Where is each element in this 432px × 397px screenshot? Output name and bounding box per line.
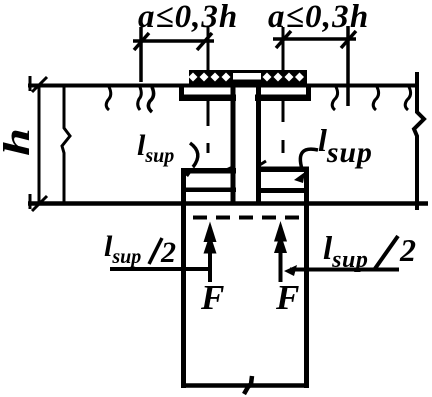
leader line l_sup/2 left <box>110 267 210 271</box>
leader arrow l_sup/2 right <box>284 265 297 276</box>
beam left flange <box>179 87 236 101</box>
column left edge <box>181 168 186 388</box>
slab break squiggle 1 <box>106 87 111 110</box>
column bottom line with break <box>181 383 309 388</box>
leader arrow l_sup right <box>294 172 305 183</box>
slab top line <box>28 84 419 88</box>
beam right flange <box>255 87 311 101</box>
svg-text:F: F <box>200 278 224 317</box>
slab break line left <box>62 86 70 202</box>
bearing pad right <box>256 167 309 194</box>
slab bottom line left end tick <box>29 194 32 209</box>
slab break squiggle 4 <box>332 87 337 110</box>
centerline right bearing <box>282 27 285 153</box>
dashed line (slab soffit inside column) <box>193 216 301 220</box>
force arrow F left <box>204 222 217 283</box>
leader line l_sup/2 right <box>290 268 399 272</box>
slab bottom line <box>28 201 428 206</box>
bearing pad left <box>181 168 236 192</box>
dimension line a right <box>273 26 356 106</box>
tick at left pad top right <box>224 166 235 171</box>
bottom break mark <box>244 376 252 394</box>
svg-text:2: 2 <box>160 236 176 269</box>
slab break squiggle 3 <box>148 87 153 112</box>
svg-text:F: F <box>275 278 299 317</box>
dimension line a left <box>133 27 214 82</box>
centerline left bearing <box>207 27 210 153</box>
slab break edge right <box>414 72 424 210</box>
svg-text:h: h <box>0 128 38 156</box>
svg-text:2: 2 <box>399 232 416 268</box>
bearing strip hatched <box>189 70 308 84</box>
beam web <box>233 87 259 204</box>
slab break squiggle 2 <box>138 87 142 110</box>
svg-text:a≤0,3h: a≤0,3h <box>138 0 238 35</box>
slab break squiggle 6 <box>405 87 410 110</box>
leader curve l_sup left <box>190 143 198 167</box>
column right edge <box>304 167 309 389</box>
slab top line left end tick <box>29 76 32 91</box>
slab break squiggle 5 <box>373 87 378 110</box>
leader arrow l_sup left <box>181 167 195 177</box>
tick at right pad top left <box>258 161 266 166</box>
leader curve l_sup right <box>300 149 318 169</box>
force arrow F right <box>274 221 287 282</box>
dimension h <box>32 77 47 211</box>
